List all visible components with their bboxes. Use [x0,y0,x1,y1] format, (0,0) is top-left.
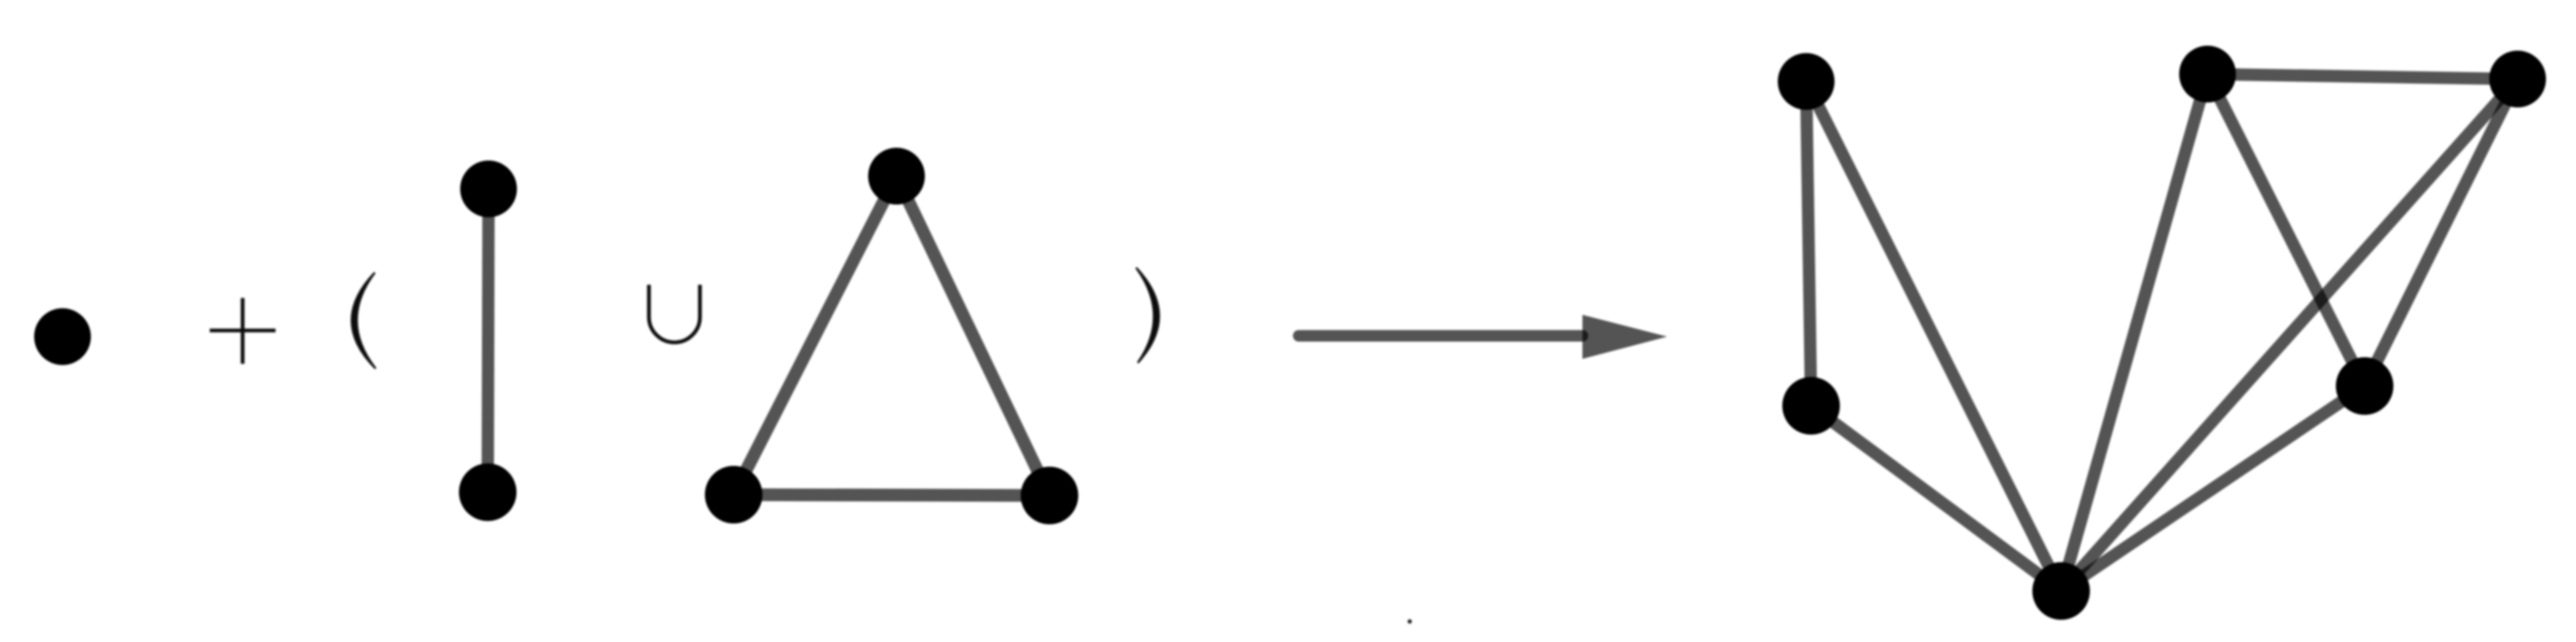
node D (result mid-left) [1782,377,1840,435]
node K2-bottom [459,463,517,521]
plus operator [210,298,276,364]
wire: triangle edge T-top to T-right [897,176,1049,495]
wire: result edge A-F [1806,81,2061,591]
arrow head [1582,315,1667,360]
wire: result edge D-F [1811,406,2061,591]
wire: result edge B-E [2208,74,2365,386]
node V0 (lone vertex of join) [35,309,91,365]
union symbol [649,285,700,342]
node T-right [1021,467,1078,524]
node E (result mid-right) [2336,357,2393,415]
right parenthesis [1137,268,1159,362]
node T-left [705,466,762,523]
wire: result edge B-F [2061,74,2208,591]
wire: result edge E-F [2061,386,2365,591]
wire: triangle edge T-top to T-left [734,176,897,495]
stray period mark [1407,619,1411,623]
node A (result top-left) [1778,53,1835,110]
node T-top [869,148,925,205]
wire: triangle edge T-left to T-right [734,495,1049,495]
node B (result top-middle) [2180,46,2236,103]
node K2-top [461,160,517,217]
wire: result edge A-D [1806,81,1811,406]
wire: result edge C-F [2061,79,2518,591]
node C (result top-right) [2490,51,2546,108]
arrow shaft [1299,330,1582,342]
left parenthesis [352,273,375,368]
wire: result edge B-C [2208,74,2518,79]
wire: result edge C-E [2365,79,2518,386]
node F (result bottom, join vertex) [2032,562,2090,620]
wire: edge K2 (top-bottom) [488,189,489,493]
